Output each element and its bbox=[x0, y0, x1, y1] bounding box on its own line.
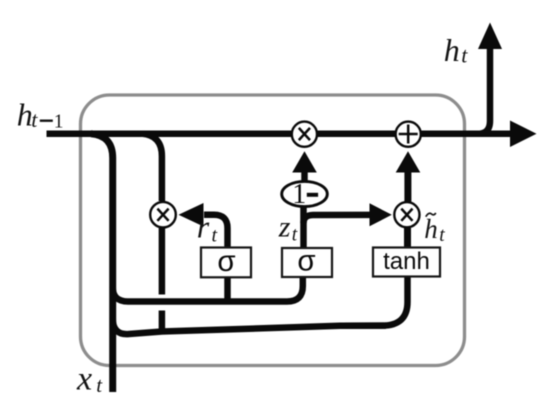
svg-text:x: x bbox=[76, 360, 92, 397]
svg-text:tanh: tanh bbox=[383, 248, 430, 275]
svg-text:t: t bbox=[461, 43, 468, 68]
svg-text:t: t bbox=[292, 225, 298, 246]
svg-text:r: r bbox=[197, 209, 210, 245]
svg-text:h: h bbox=[424, 214, 438, 244]
svg-text:t: t bbox=[31, 107, 38, 132]
svg-text:h: h bbox=[444, 32, 460, 68]
svg-text:z: z bbox=[278, 210, 291, 243]
svg-text:1: 1 bbox=[54, 111, 64, 132]
svg-text:1: 1 bbox=[292, 179, 306, 210]
svg-text:σ: σ bbox=[217, 245, 235, 278]
svg-text:t: t bbox=[439, 225, 445, 246]
svg-text:σ: σ bbox=[297, 244, 315, 277]
svg-text:t: t bbox=[212, 225, 218, 247]
